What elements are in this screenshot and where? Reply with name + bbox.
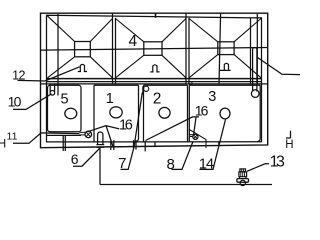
drain valve B circle [193, 134, 198, 139]
outer shell rectangle [41, 13, 268, 148]
pump valve flange [237, 179, 249, 183]
panel 3 center line [219, 14, 221, 85]
pump valve body [239, 172, 247, 177]
compartment box 1 [94, 85, 139, 141]
leader line 12 [18, 67, 80, 81]
leader line 9 (right standpipe) [258, 58, 301, 75]
horizontal midline [41, 48, 268, 51]
pump valve waist [240, 177, 247, 179]
svg-text:H: H [0, 138, 6, 150]
leader line 6 [73, 149, 100, 167]
compartment box 3 [189, 85, 260, 141]
compartment box 5 [48, 85, 82, 132]
right standpipe drain circle [251, 90, 259, 98]
leader line 13 [247, 164, 269, 172]
drain valve B frame slant [189, 130, 206, 149]
lower rim line [47, 81, 262, 83]
svg-text:12: 12 [12, 69, 25, 83]
hopper 2 diagonals [116, 19, 187, 78]
svg-text:1: 1 [106, 91, 114, 107]
partition wall 2 [185, 14, 187, 85]
svg-text:10: 10 [8, 93, 22, 109]
svg-text:16: 16 [195, 103, 209, 119]
drain valve A stem [80, 132, 86, 135]
box 3 impeller ellipse [220, 108, 230, 119]
compartment box 2 [144, 85, 188, 141]
drain valve B cross [194, 135, 197, 138]
top border tick [155, 13, 157, 17]
left wall nozzle [50, 84, 54, 92]
box 2 impeller ellipse [159, 107, 170, 118]
leader line 10 [13, 94, 52, 110]
partition wall 1 [112, 14, 114, 85]
svg-text:14: 14 [199, 156, 214, 172]
svg-text:4: 4 [128, 33, 137, 50]
arch mark 3 [219, 63, 231, 70]
svg-text:2: 2 [153, 90, 162, 107]
left strip vertical [57, 14, 59, 96]
panel 3 right edge [250, 18, 252, 84]
hopper square 2 [144, 42, 162, 56]
bottom flange 1 [111, 140, 114, 150]
svg-text:8: 8 [167, 156, 175, 173]
hopper 1 diagonals [47, 16, 112, 78]
pump valve cap [240, 169, 246, 172]
leader line 7 [121, 93, 143, 170]
hopper square 3 [218, 42, 234, 55]
arch mark 1 [78, 64, 87, 71]
pump valve body ribs [241, 172, 245, 177]
drain valve A circle [85, 131, 92, 138]
froth outlet loop on box 2 [142, 86, 144, 94]
svg-text:11: 11 [7, 130, 18, 142]
svg-text:7: 7 [118, 155, 126, 172]
svg-text:H: H [285, 139, 293, 151]
leader line 11 [13, 133, 80, 143]
inner shell rectangle [47, 15, 262, 142]
left wall nozzle circle [50, 91, 55, 96]
leader line 16 left (V) [88, 126, 120, 147]
section boundary line [41, 83, 268, 85]
right standpipe [253, 47, 257, 91]
drain pipe tube [98, 132, 103, 144]
svg-text:13: 13 [270, 154, 285, 171]
leader line 8 [172, 142, 194, 170]
panel bottom line [47, 78, 262, 80]
bottom tick at 219 [218, 142, 220, 145]
hopper 3 diagonals [189, 19, 261, 78]
drain pipe flange plates [96, 145, 104, 148]
box 5 impeller ellipse [65, 108, 77, 118]
right H marker elbow [286, 131, 291, 138]
bottom tick at 145 [144, 141, 146, 151]
box 1 impeller ellipse [110, 107, 122, 118]
pump valve base circle [240, 180, 245, 185]
drain valve A cross [86, 132, 90, 136]
drain pipe vertical run [99, 147, 101, 184]
box 5 under line [47, 134, 82, 136]
box 5 under ticks [63, 135, 65, 151]
bottom discharge pipe [100, 184, 272, 186]
drain valve B stem [189, 135, 193, 137]
hopper square 1 [75, 42, 91, 57]
vent circle on box 3 [189, 82, 192, 85]
svg-text:16: 16 [119, 117, 133, 133]
arch mark 2 [150, 65, 159, 72]
leader line 16 right [146, 117, 200, 141]
svg-text:3: 3 [208, 89, 216, 105]
bottom tick at 155 [154, 142, 156, 147]
svg-text:5: 5 [61, 91, 69, 107]
right strip vertical [256, 14, 258, 84]
leader line 14 [200, 120, 226, 170]
pump valve cap ribs [242, 169, 244, 172]
bottom flange 2 [134, 140, 137, 149]
svg-text:6: 6 [71, 151, 79, 167]
